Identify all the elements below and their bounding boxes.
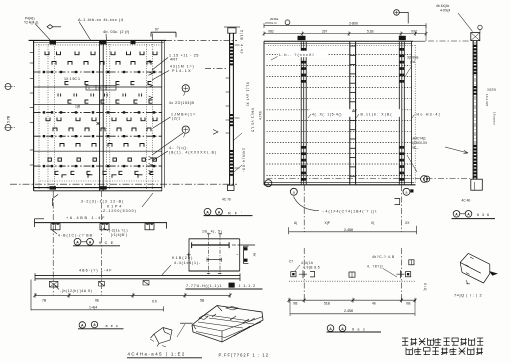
svg-text:51B: 51B bbox=[324, 302, 331, 306]
svg-text:4-B(1C)-(?ʻBB: 4-B(1C)-(?ʻBB bbox=[58, 232, 93, 237]
svg-text:1 1:1.2: 1 1:1.2 bbox=[239, 284, 257, 288]
svg-text:A: A bbox=[89, 240, 92, 244]
svg-text:X(P: X(P bbox=[325, 221, 331, 225]
svg-text:M(: M( bbox=[253, 253, 257, 257]
svg-text:X82: X82 bbox=[268, 30, 274, 34]
svg-text:(2(1: (2(1 bbox=[172, 117, 181, 121]
svg-text:4C ?b: 4C ?b bbox=[222, 197, 231, 201]
svg-text:4C 4b: 4C 4b bbox=[462, 198, 471, 202]
svg-text:4.7XX: 4.7XX bbox=[259, 110, 263, 120]
svg-text:L.b-. ?(xxxXI: L.b-. ?(xxxXI bbox=[279, 53, 315, 57]
svg-text:2-458: 2-458 bbox=[344, 309, 353, 313]
svg-text:Y2 4((4-1): Y2 4((4-1) bbox=[24, 20, 38, 24]
svg-text:9.9: 9.9 bbox=[152, 300, 157, 304]
svg-text:a: a bbox=[406, 190, 408, 194]
svg-text:XC: XC bbox=[98, 86, 103, 90]
svg-text:(2d: (2d bbox=[410, 60, 415, 64]
svg-text:P.FF(7?62F 1 : 12: P.FF(7?62F 1 : 12 bbox=[219, 353, 270, 358]
svg-text:5.1B: 5.1B bbox=[367, 30, 374, 34]
svg-text:1-4(4: 1-4(4 bbox=[89, 305, 97, 309]
svg-text:4(1BXX-XX: 4(1BXX-XX bbox=[411, 141, 428, 145]
svg-text:7B: 7B bbox=[42, 299, 47, 303]
svg-text:XVXIL O: XVXIL O bbox=[265, 21, 277, 25]
svg-text:A: A bbox=[206, 210, 209, 214]
svg-text:[/1)4(B·): [/1)4(B·) bbox=[111, 233, 127, 237]
svg-text:5(1B. 4-4J: 5(1B. 4-4J bbox=[240, 30, 244, 54]
svg-text:2b7: 2b7 bbox=[322, 30, 328, 34]
svg-text:5.7B: 5.7B bbox=[7, 115, 11, 123]
svg-text:4B6-(?) 1-4F: 4B6-(?) 1-4F bbox=[79, 268, 113, 272]
svg-text:7-77U-H((1-1)1: 7-77U-H((1-1)1 bbox=[186, 284, 222, 288]
svg-text:4(. X(: 1(5-4(): 4(. X(: 1(5-4() bbox=[312, 112, 342, 116]
svg-text:K1P4: K1P4 bbox=[107, 204, 123, 208]
svg-text:Z-1200(5300): Z-1200(5300) bbox=[103, 209, 137, 213]
svg-text:3-2(3)-1(3 12-B(: 3-2(3)-1(3 12-B( bbox=[81, 199, 124, 203]
svg-text:B.11(b: X(B(: B.11(b: X(B( bbox=[361, 112, 393, 116]
svg-text:C7: C7 bbox=[289, 260, 293, 264]
svg-text:4C4Ha-a45 | 1:E2: 4C4Ha-a45 | 1:E2 bbox=[128, 352, 186, 357]
svg-text:4-4(1±4(1)-: 4-4(1±4(1)- bbox=[174, 261, 201, 265]
svg-text:3(1?(Ba: 3(1?(Ba bbox=[407, 55, 419, 59]
svg-text:(B(1). 4(XXXXXL.B): (B(1). 4(XXXXXL.B) bbox=[169, 151, 217, 155]
svg-text:3(15X): 3(15X) bbox=[487, 88, 496, 92]
svg-text:5B: 5B bbox=[200, 299, 205, 303]
svg-text:4.9(B 8.5: 4.9(B 8.5 bbox=[303, 266, 320, 270]
svg-text:-(b(12(b)ʻ|4A 5): -(b(12(b)ʻ|4A 5) bbox=[60, 288, 92, 293]
svg-text:A: A bbox=[76, 240, 79, 244]
svg-text:4N7: 4N7 bbox=[170, 58, 178, 62]
svg-text:1X 1 9C 1: 1X 1 9C 1 bbox=[64, 77, 80, 81]
svg-text:X / 2(: X / 2( bbox=[423, 283, 427, 292]
svg-text:7/8—: 7/8— bbox=[411, 146, 419, 150]
svg-text:4b. 03c. (2 (f): 4b. 03c. (2 (f) bbox=[103, 30, 130, 34]
svg-text:4. ?8?(]: 4. ?8?(] bbox=[367, 265, 383, 269]
svg-text:4-XX(4: 4-XX(4 bbox=[440, 9, 450, 13]
svg-text:4-4(1b: 4-4(1b bbox=[301, 261, 314, 265]
svg-text:a: a bbox=[267, 182, 269, 186]
svg-text:14th(4-XX-: 14th(4-XX- bbox=[242, 148, 246, 173]
svg-text:+6.4BB 1-4F: +6.4BB 1-4F bbox=[66, 216, 106, 220]
svg-text:a e c: a e c bbox=[106, 324, 120, 328]
svg-text:9E: 9E bbox=[95, 299, 100, 303]
svg-text:XX2: XX2 bbox=[411, 30, 417, 34]
svg-text:1(B: 1(B bbox=[75, 105, 81, 109]
svg-text:14.xxxx.x: 14.xxxx.x bbox=[493, 112, 497, 125]
svg-text:4b?C-?.4.B: 4b?C-?.4.B bbox=[372, 255, 395, 259]
svg-text:4c 2O(153(B: 4c 2O(153(B bbox=[169, 101, 195, 105]
svg-text:R F ʻ: R F ʻ bbox=[228, 210, 244, 215]
svg-text:4-. ?(=().: 4-. ?(=(). bbox=[169, 146, 189, 150]
svg-text:6 3 6: 6 3 6 bbox=[477, 213, 490, 217]
svg-text:4b: 4b bbox=[372, 302, 376, 306]
svg-text:4b 4X(4x: 4b 4X(4x bbox=[436, 4, 450, 8]
svg-text:9 e c: 9 e c bbox=[352, 327, 366, 331]
svg-text:14-1 4x5: 14-1 4x5 bbox=[485, 94, 489, 106]
svg-text:Ho H3-4(: Ho H3-4( bbox=[417, 112, 442, 116]
svg-text:14|4C?4(1: 14|4C?4(1 bbox=[411, 137, 426, 141]
svg-text:VH(1.vb:L5: VH(1.vb:L5 bbox=[251, 108, 255, 133]
svg-text:7≡jQ | i : | 2: 7≡jQ | i : | 2 bbox=[454, 293, 482, 298]
svg-text:2-800: 2-800 bbox=[349, 22, 358, 26]
svg-text:1B, 4(, 5): 1B, 4(, 5) bbox=[202, 230, 222, 234]
svg-text:XL(1.avt XI: XL(1.avt XI bbox=[246, 82, 250, 107]
svg-text:→4(1≠4(C?4(1B4(ʻ? (|t: →4(1≠4(C?4(1B4(ʻ? (|t bbox=[321, 208, 377, 213]
svg-text:2-458: 2-458 bbox=[344, 228, 353, 232]
svg-text:97: 97 bbox=[155, 27, 159, 31]
svg-text:A: A bbox=[218, 210, 221, 214]
svg-text:K1B(2b): K1B(2b) bbox=[172, 256, 194, 260]
svg-text:≈: ≈ bbox=[237, 253, 239, 257]
svg-text:P14-1X: P14-1X bbox=[172, 69, 192, 73]
svg-text:a: a bbox=[293, 190, 295, 194]
svg-text:A-1 4tb-xx 4t-xxx (4: A-1 4tb-xx 4t-xxx (4 bbox=[78, 17, 124, 22]
